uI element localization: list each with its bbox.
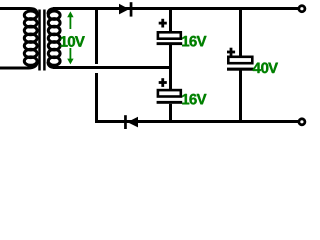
secondary bottom lead <box>48 62 55 68</box>
terminal top <box>299 6 305 12</box>
wire C1 top lead <box>169 9 172 33</box>
capacitor C3 plus sign <box>227 48 235 57</box>
wire node R horizontal <box>53 66 172 69</box>
primary bottom lead <box>0 62 37 69</box>
terminal bottom <box>299 119 305 125</box>
wire node S vertical (upper segment) <box>95 9 98 65</box>
diode D1 <box>119 2 132 16</box>
capacitor C3 <box>227 57 254 71</box>
transformer T1 <box>0 9 60 71</box>
primary winding <box>24 11 37 65</box>
core <box>38 10 41 71</box>
wire top rail <box>53 7 298 10</box>
primary top lead <box>0 9 37 15</box>
wire C3 top lead <box>239 9 242 58</box>
capacitor C2 plus sign <box>159 78 167 87</box>
wire C3 bottom lead <box>239 71 242 124</box>
wire bottom rail <box>95 120 298 123</box>
capacitor C1 <box>157 32 183 45</box>
label 16V (C2) <box>182 94 206 105</box>
secondary winding <box>48 11 60 65</box>
capacitor C1 plus sign <box>159 19 167 28</box>
label 10V dimension arrow <box>67 11 73 64</box>
diode D2 <box>124 115 138 129</box>
capacitor C2 <box>157 90 183 104</box>
label 16V (C1) <box>182 36 206 47</box>
wire C2 top lead <box>169 68 172 91</box>
wire C1 bottom lead <box>169 45 172 68</box>
wire C2 bottom lead <box>169 104 172 123</box>
wire node S vertical (lower segment) <box>95 73 98 123</box>
label 10V <box>61 36 85 47</box>
label 40V <box>253 63 278 74</box>
secondary top lead <box>48 9 56 15</box>
